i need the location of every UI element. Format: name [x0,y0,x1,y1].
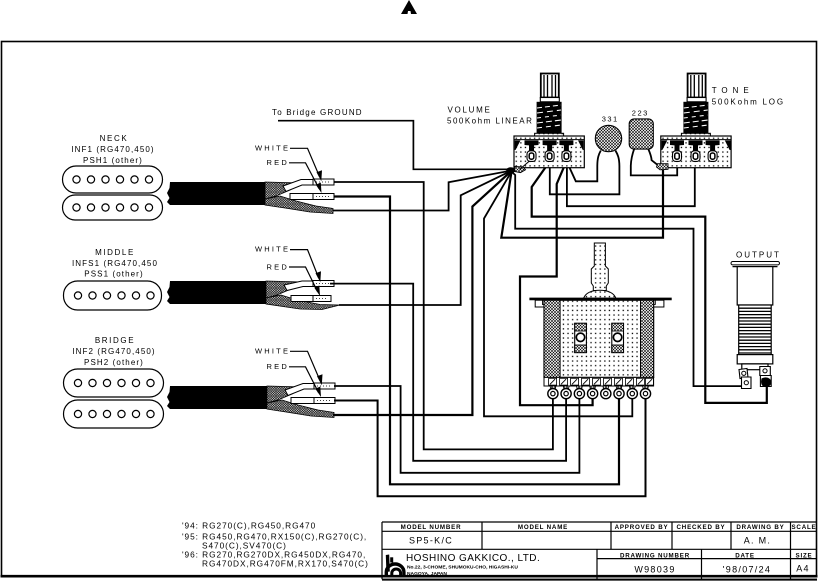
middle cable (black jacket) [167,281,266,304]
wire tone casing ground [501,169,663,238]
svg-text:MODEL NUMBER: MODEL NUMBER [401,524,462,531]
model year list text [182,521,369,569]
neck cable shield braid [265,182,333,214]
output jack [731,262,780,389]
title block header texts [401,524,817,560]
volume pot body [514,74,584,168]
jack tip solder blob [761,377,771,387]
wire cap223 left leg to tone lug1 [631,149,677,176]
svg-text:TONE: TONE [712,86,754,95]
wire to-bridge-ground [278,121,508,170]
switch lugs (8) [548,386,651,399]
bridge cable shield braid [267,386,334,418]
title block value texts [409,536,810,575]
wire volume lug3 to cap331 left leg [567,151,601,182]
svg-text:INF1 (RG470,450): INF1 (RG470,450) [71,145,154,154]
switch lever [591,243,608,291]
middle RED label + leader arrow [267,262,321,296]
svg-text:SP5-K/C: SP5-K/C [409,536,453,546]
wire neck white to switch lug1 [334,182,553,449]
neck cable (black jacket) [167,182,265,205]
middle cable shield braid [266,281,340,310]
bridge white conductor [285,384,316,396]
svg-text:PSS1 (other): PSS1 (other) [84,270,143,279]
svg-text:HOSHINO GAKKICO., LTD.: HOSHINO GAKKICO., LTD. [406,553,540,564]
volume pot U1 label [447,106,533,126]
svg-text:CHECKED BY: CHECKED BY [677,524,726,531]
5-way switch SW1 [529,243,671,399]
pickup NECK humbucker [63,166,163,220]
wire neck red to switch lug6 [334,197,619,485]
svg-text:PSH2 (other): PSH2 (other) [84,358,144,367]
svg-text:VOLUME: VOLUME [448,106,492,115]
svg-text:MODEL NAME: MODEL NAME [518,524,568,531]
svg-text:'94: RG270(C),RG450,RG470: '94: RG270(C),RG450,RG470 [182,521,316,531]
svg-text:WHITE: WHITE [255,245,290,254]
neck WHITE label + leader arrow [255,143,322,181]
svg-text:DRAWING NUMBER: DRAWING NUMBER [620,553,690,560]
svg-text:INFS1 (RG470,450: INFS1 (RG470,450 [72,259,158,268]
pickup MIDDLE single coil [64,281,162,310]
bridge WHITE label + leader arrow [255,346,323,385]
wire switch lug7 ground [484,172,632,417]
svg-text:APPROVED BY: APPROVED BY [615,524,669,531]
svg-text:'98/07/24: '98/07/24 [723,565,771,575]
wire volume wiper to cap331 right leg [550,151,620,195]
svg-text:INF2 (RG470,450): INF2 (RG470,450) [72,347,155,356]
Hoshino logo [386,555,404,577]
tone pot label [712,86,785,106]
middle red conductor [291,296,313,302]
svg-text:To Bridge GROUND: To Bridge GROUND [272,108,363,117]
middle white conductor [284,281,315,291]
tone pot casing ground lug [657,164,669,170]
svg-text:A4: A4 [796,564,810,574]
volume lug1 to casing wire [520,161,530,170]
neck RED label + leader arrow [267,158,322,193]
capacitor 223 (box) [629,119,653,149]
svg-text:RED: RED [267,262,289,271]
pickup MIDDLE label [72,248,158,279]
wire middle white to switch lug2 [330,284,566,461]
volume pot casing ground lug + solder junction [515,167,526,173]
Hoshino company text [406,553,540,577]
switch left flange tab [535,300,558,307]
svg-text:500Kohm LINEAR: 500Kohm LINEAR [447,117,533,126]
wire volume wiper to output tip [532,158,767,403]
title block table [382,522,817,580]
switch slot B [612,323,624,352]
svg-text:RED: RED [267,158,289,167]
top registration triangle [401,0,417,14]
svg-text:No.22, 3-CHOME, SHUMOKU-CHO, H: No.22, 3-CHOME, SHUMOKU-CHO, HIGASHI-KU [407,564,518,570]
wire middle red+shield to volume casing [339,171,511,305]
neck white conductor [283,180,315,192]
svg-text:PSH1 (other): PSH1 (other) [83,156,143,165]
middle WHITE label + leader arrow [255,245,321,283]
svg-text:SCALE: SCALE [792,524,817,531]
pickup BRIDGE label [72,336,155,367]
switch body [544,300,654,377]
svg-text:NAGOYA, JAPAN: NAGOYA, JAPAN [407,571,447,577]
pickup NECK label [71,134,154,165]
wire neck shield to volume casing [333,171,511,211]
jack tip lug [760,367,771,387]
jack sleeve lug [739,369,751,389]
svg-text:500Kohm LOG: 500Kohm LOG [712,97,785,106]
svg-text:SIZE: SIZE [796,553,813,560]
svg-text:223: 223 [632,109,649,118]
svg-text:WHITE: WHITE [255,346,290,355]
switch right flange tab [639,300,664,307]
wire output sleeve ground [512,172,749,386]
switch terminal strip [544,377,654,386]
svg-text:RG470DX,RG470FM,RX170,S470(C): RG470DX,RG470FM,RX170,S470(C) [202,559,369,569]
wire bridge white to switch lug3 [334,386,579,473]
switch mounting plate [529,298,671,301]
svg-text:NECK: NECK [100,134,129,143]
wire bridge red to switch lug8 [334,396,646,496]
svg-text:W98039: W98039 [634,565,675,575]
svg-text:RED: RED [267,362,289,371]
svg-text:WHITE: WHITE [255,143,290,152]
wire volume lug3 to tone lug2 [567,158,695,206]
pickup BRIDGE humbucker [64,369,164,428]
switch slot A [575,323,587,352]
capacitor 331 (disc) [595,125,621,151]
svg-text:DRAWING BY: DRAWING BY [736,524,784,531]
wire volume lug3 to switch lug4 [520,158,593,405]
svg-text:MIDDLE: MIDDLE [95,248,135,257]
wire cap223 right leg to tone casing [648,149,660,167]
bridge cable (black jacket) [167,386,267,409]
neck red conductor [290,194,313,200]
svg-text:OUTPUT: OUTPUT [736,251,781,260]
svg-text:DATE: DATE [735,553,755,560]
bridge RED label + leader arrow [267,362,322,397]
svg-text:BRIDGE: BRIDGE [95,336,135,345]
tone pot body [661,74,731,168]
bridge red conductor [291,398,314,404]
svg-text:331: 331 [602,115,619,124]
wire bridge shield to volume casing [333,171,511,415]
svg-text:A. M.: A. M. [744,536,772,546]
